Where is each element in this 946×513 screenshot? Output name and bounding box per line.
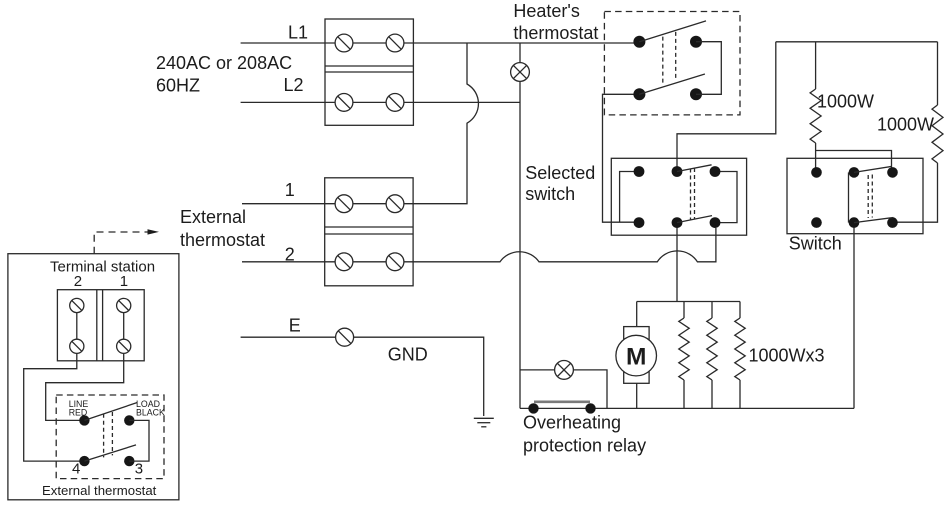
lamp X1 (indicator) [511, 63, 530, 82]
svg-text:2: 2 [285, 245, 295, 265]
terminal block TB2 (external thermostat 1/2) [325, 178, 413, 286]
wire selected switch right strap [715, 172, 737, 223]
screw terminal E [336, 328, 354, 346]
svg-text:GND: GND [388, 345, 428, 365]
svg-text:Switch: Switch [789, 234, 842, 254]
svg-text:E: E [289, 316, 301, 336]
relay contact dot right [585, 403, 595, 413]
svg-text:L1: L1 [288, 23, 308, 43]
wire TB3-2 to contact 4 [24, 353, 85, 461]
lamp X2 (overheating relay coil/indicator) [555, 361, 574, 380]
selected switch contacts S1 [634, 165, 721, 228]
svg-text:thermostat: thermostat [180, 230, 265, 250]
svg-text:Overheating: Overheating [523, 413, 621, 433]
wire motor bottom lead [636, 383, 638, 408]
overheating protection relay contact bar [534, 400, 590, 403]
resistor R4 1000Wx3 leg2 [711, 302, 713, 319]
resistor R1 1000W [815, 42, 817, 89]
resistor R2 1000W [937, 42, 939, 105]
svg-text:Terminal station: Terminal station [50, 258, 155, 275]
svg-text:M: M [626, 343, 646, 370]
wire heater top rail [637, 301, 740, 303]
wire TB3-1 to LINE RED contact [46, 353, 124, 420]
switch S2 contacts [811, 166, 898, 228]
wire bottom rail [520, 407, 854, 409]
resistor R3 1000Wx3 leg1 [683, 302, 685, 319]
external thermostat dashed box [56, 395, 164, 479]
svg-text:External: External [180, 207, 246, 227]
resistor R5 1000Wx3 leg3 [739, 302, 741, 319]
svg-text:Selected: Selected [525, 163, 595, 183]
wire selected switch left strap [620, 172, 639, 223]
wire motor top lead [636, 302, 638, 327]
wire L1 [241, 42, 640, 44]
svg-text:thermostat: thermostat [513, 23, 598, 43]
svg-text:1: 1 [120, 273, 128, 290]
svg-text:protection relay: protection relay [523, 435, 646, 455]
heater's thermostat contacts U1 [633, 21, 721, 100]
svg-text:Heater's: Heater's [513, 1, 579, 21]
svg-text:External thermostat: External thermostat [42, 483, 157, 498]
terminal block TB3 [57, 290, 144, 361]
svg-text:3: 3 [135, 461, 143, 478]
svg-text:1: 1 [285, 180, 295, 200]
svg-text:240AC or 208AC: 240AC or 208AC [156, 53, 292, 73]
svg-text:switch: switch [525, 184, 575, 204]
wire 1 (external thermostat line 1 to L1) [242, 43, 478, 204]
wire R1 to S2 top-right [816, 151, 892, 173]
svg-text:1000Wx3: 1000Wx3 [749, 345, 825, 365]
dashed arrow to External thermostat label [94, 229, 159, 254]
wire E to ground [241, 337, 484, 416]
external thermostat contacts [79, 403, 149, 467]
ground [474, 418, 494, 427]
svg-text:L2: L2 [284, 75, 304, 95]
svg-text:1000W: 1000W [817, 91, 874, 111]
wire lamp branch (overheating relay bypass) [520, 370, 607, 409]
wire L2 [241, 101, 520, 103]
wire top rail [776, 41, 938, 43]
svg-text:BLACK: BLACK [136, 407, 165, 417]
terminal block TB1 (L1/L2) [325, 19, 413, 125]
wire switch S2 bottom-middle to bottom rail [853, 223, 855, 409]
wire heater thermostat return (to selected switch) [603, 94, 640, 222]
motor M1 [616, 327, 657, 384]
svg-text:4: 4 [72, 461, 80, 478]
svg-text:1000W: 1000W [877, 115, 934, 135]
wire lamp drop (L1/L2 to bottom rail) [519, 43, 521, 408]
selected switch box [611, 158, 746, 235]
wire selected switch bottom-middle to heater rail [676, 228, 678, 302]
terminal station outer box [8, 254, 179, 500]
svg-text:60HZ: 60HZ [156, 76, 200, 96]
relay contact dot left [528, 403, 538, 413]
wire selected switch top-middle to top rail [677, 42, 776, 172]
svg-text:2: 2 [74, 273, 82, 290]
wire 2 (external thermostat line 2 to selected switch) [242, 228, 716, 262]
switch S2 box [787, 158, 923, 233]
heater's thermostat dashed box [604, 12, 740, 115]
svg-text:RED: RED [69, 407, 88, 417]
